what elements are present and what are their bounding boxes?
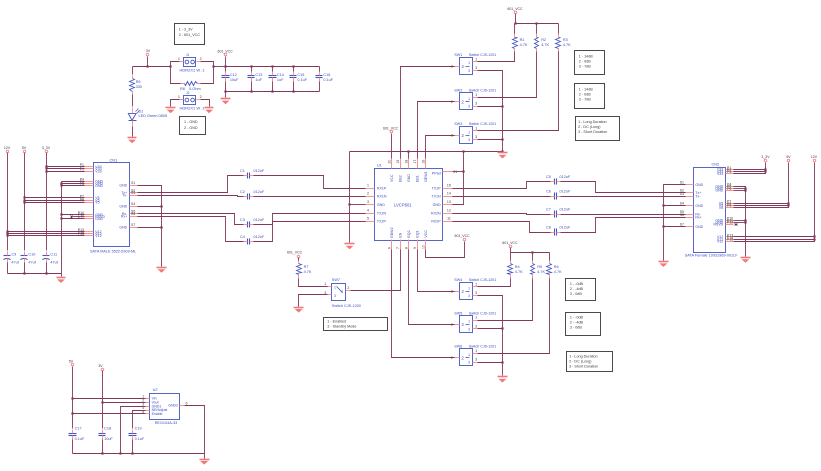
svg-text:R8: R8 [180,87,185,91]
svg-text:330: 330 [136,85,142,89]
pin P1 CN1 [80,163,102,169]
svg-text:601_VCC: 601_VCC [287,250,303,254]
pin P13 CN2 [717,233,734,239]
wire 5V CN2 [734,163,789,208]
svg-text:C14: C14 [277,73,284,77]
svg-text:P3: P3 [727,170,731,174]
power 3_3V [761,155,770,162]
pin P10 CN1 [78,211,104,217]
pin P7 CN1 [80,194,100,200]
junction [60,213,62,215]
capacitor C11 [42,252,58,265]
svg-text:C5: C5 [546,175,551,179]
wire C8 to CN2 S6 [561,218,686,233]
wire [734,239,815,241]
svg-text:1 - GND: 1 - GND [184,120,198,124]
svg-text:RX2P: RX2P [431,219,441,223]
connector CN2 [685,161,739,257]
pin P6 CN2 [715,187,733,193]
wire pin14 to C6 [453,196,551,198]
wire [478,279,511,287]
svg-text:1: 1 [178,95,180,99]
wire gnd net horizontal [350,151,503,153]
svg-text:2: 2 [367,191,369,195]
svg-text:Switch CJS-1201: Switch CJS-1201 [469,311,497,315]
svg-text:601_VCC: 601_VCC [218,49,234,53]
svg-text:4.7K: 4.7K [520,43,528,47]
svg-text:1 - Long Duration: 1 - Long Duration [569,354,598,358]
junction [501,361,503,363]
svg-text:3V: 3V [146,49,151,53]
junction [23,196,25,198]
junction [119,452,121,454]
svg-text:2: 2 [347,286,349,290]
junction [23,272,25,274]
power 5V [786,155,791,162]
svg-text:3_3V: 3_3V [761,155,770,159]
svg-text:0-Ohm: 0-Ohm [189,87,201,91]
ground [345,244,355,250]
wire [61,274,63,277]
wire pin10 VCC [426,242,465,258]
svg-text:11: 11 [447,216,451,220]
svg-text:RX2N: RX2N [431,211,441,215]
svg-text:GND: GND [119,225,127,229]
wire pin6 to SW6 [392,250,456,358]
svg-text:R3: R3 [563,38,568,42]
svg-text:VCC: VCC [390,174,394,182]
svg-text:9: 9 [413,247,417,249]
wire 5V rail [24,153,26,251]
svg-text:CN2: CN2 [712,161,720,166]
junction [787,202,789,204]
wire [132,440,134,454]
no-connect X P12 CN2 [735,224,738,226]
legend box [566,279,596,301]
svg-text:14: 14 [447,191,451,195]
svg-text:OEW1: OEW1 [424,171,428,182]
svg-text:GND2: GND2 [168,404,178,408]
svg-text:J1: J1 [186,53,190,57]
legend box [576,117,620,141]
junction [501,105,503,107]
svg-text:4: 4 [367,208,369,212]
ground [498,377,508,383]
wire [225,67,227,72]
wire [293,82,295,92]
junction [160,226,162,228]
ground [659,262,669,268]
wire [7,263,9,274]
wire [478,52,559,131]
ground [157,268,167,273]
wire C7 to CN2 S5 [561,214,686,216]
svg-text:S6: S6 [131,212,135,216]
svg-text:Tx-: Tx- [122,193,128,197]
junction [101,401,103,403]
svg-text:2: 2 [451,290,453,294]
wire [478,52,515,62]
junction [45,165,47,167]
wire [558,24,560,34]
junction [6,230,8,232]
wire pin9 to SW4 [418,250,456,292]
svg-text:12V: 12V [811,155,818,159]
wire [664,226,686,228]
svg-text:P6: P6 [727,187,731,191]
svg-text:.012uF: .012uF [559,175,572,179]
junction [146,65,148,67]
svg-text:Tx-: Tx- [695,194,701,198]
ground [294,308,304,313]
pin P4 CN2 [715,183,733,189]
svg-text:CN1: CN1 [110,157,118,162]
svg-text:GND: GND [695,183,703,187]
junction [662,204,664,206]
junction [101,452,103,454]
wire 12V rail [7,153,9,251]
resistor R4 [508,261,524,279]
svg-text:EQ1: EQ1 [416,230,420,237]
junction [462,170,464,172]
wire [201,100,210,107]
svg-text:R4: R4 [515,265,520,269]
svg-text:3: 3 [468,138,470,142]
svg-text:0.1uF: 0.1uF [323,78,333,82]
resistor R8 [180,82,201,92]
svg-text:1: 1 [475,283,477,287]
junction [744,187,746,189]
wire [478,328,503,330]
switch SW6 [451,345,496,366]
capacitor C10 [20,252,36,265]
wire [319,67,321,72]
svg-text:18: 18 [405,160,409,164]
svg-text:HDR2X1 W .1: HDR2X1 W .1 [180,67,206,72]
power 601_VCC [507,7,523,14]
svg-text:S7: S7 [680,223,684,227]
svg-text:4.7K: 4.7K [537,270,545,274]
svg-text:3V: 3V [98,364,103,368]
junction [744,189,746,191]
svg-text:6: 6 [186,402,188,406]
svg-text:20: 20 [388,160,392,164]
junction [514,22,516,24]
svg-text:3: 3 [468,327,470,331]
wire C3 to U1 pin4 [254,214,366,225]
junction [348,203,350,205]
capacitor C16 [316,72,334,83]
wire [298,258,300,261]
pin P6 CN1 [80,182,104,188]
svg-text:EB2: EB2 [398,175,402,182]
junction [764,168,766,170]
pin S2 CN2 [680,189,702,195]
pin P11 CN2 [715,219,733,225]
wire [510,253,512,261]
wire [319,82,321,92]
svg-text:Enable: Enable [152,412,163,416]
capacitor C4 [240,235,265,245]
wire pin7 to SW7 [351,250,401,291]
svg-text:1uF: 1uF [277,78,284,82]
svg-text:P9: P9 [727,204,731,208]
svg-text:10: 10 [422,245,426,249]
capacitor C17 [69,426,85,440]
wire [549,253,551,261]
svg-text:1: 1 [468,320,470,324]
svg-text:Switch CJS-1200: Switch CJS-1200 [332,304,361,308]
connector CN1 [90,157,136,253]
svg-text:.012uF: .012uF [253,169,266,173]
wire [734,169,766,171]
junction [813,238,815,240]
wire S3 to C2 [138,196,244,197]
wire pin15 to C5 [453,182,551,189]
wire 3_3V CN2 [734,163,766,174]
capacitor C6 [546,190,571,200]
svg-text:EQ2: EQ2 [407,230,411,237]
power 5V [69,360,74,366]
capacitor C18 [99,426,114,440]
wire [62,214,85,216]
svg-text:C6: C6 [546,190,551,194]
power 5V [22,146,27,153]
svg-text:C2: C2 [240,190,245,194]
legend box [566,313,601,336]
junction [45,272,47,274]
pin S4 CN2 [680,202,704,208]
wire S6 to C4 [138,217,244,242]
svg-text:1: 1 [334,285,336,289]
svg-text:2: 2 [200,95,202,99]
pin S3 CN2 [680,192,702,198]
wire [408,152,410,159]
wire [391,134,393,159]
wire [478,362,503,364]
wire [8,235,85,237]
wire [453,171,464,173]
wire [251,67,253,72]
pin P11 CN1 [78,213,105,219]
pin P2 CN1 [80,165,102,171]
wire [102,440,104,454]
wire 5V rail U2 [72,367,74,429]
junction [60,217,62,219]
svg-text:SW1: SW1 [454,53,462,57]
svg-text:601_VCC: 601_VCC [383,126,399,130]
svg-text:601_VCC: 601_VCC [455,234,471,238]
svg-text:47uf: 47uf [28,260,36,264]
legend box J1 options [175,24,205,45]
wire pin8 to SW5 [409,250,456,325]
svg-text:LED Green 0805: LED Green 0805 [139,114,168,118]
svg-text:REG104A-33: REG104A-33 [155,421,178,425]
wire [734,220,746,222]
svg-text:EB1: EB1 [416,175,420,182]
pin P13 CN1 [78,228,102,234]
svg-text:2 - GND: 2 - GND [184,126,198,130]
wire gnd net left vertical [349,152,351,243]
voltage regulator U2 REG104A-33 [142,388,187,425]
capacitor C5 [546,175,571,185]
svg-text:V12: V12 [717,239,723,243]
svg-text:3_3V: 3_3V [42,146,51,150]
svg-text:.012uF: .012uF [559,208,572,212]
svg-text:SATA Female 10031969-001LF: SATA Female 10031969-001LF [685,254,739,258]
svg-text:SW5: SW5 [454,311,462,315]
capacitor C7 [546,208,571,218]
wire [272,82,274,92]
svg-text:HDR2X1 W .1: HDR2X1 W .1 [180,105,206,110]
wire [664,205,686,207]
pin P5 CN2 [715,185,733,191]
pin S6 CN1 [121,212,138,218]
svg-text:C9: C9 [11,252,16,256]
ground [128,138,137,144]
svg-text:GND: GND [95,217,103,221]
junction [60,182,62,184]
pin S3 CN1 [122,191,137,197]
svg-text:TX1N: TX1N [431,194,441,198]
capacitor C8 [546,226,571,236]
wire Vin [73,398,146,400]
svg-text:1uF: 1uF [255,78,262,82]
svg-text:GND: GND [95,184,103,188]
svg-text:1 - Long Duration: 1 - Long Duration [578,120,607,124]
svg-text:0.1uF: 0.1uF [297,78,307,82]
wire [536,24,538,34]
junction [131,452,133,454]
svg-text:.012uF: .012uF [253,235,266,239]
svg-text:601_VCC: 601_VCC [502,241,518,245]
wire [72,440,74,454]
junction [160,205,162,207]
svg-text:1 - 14dB: 1 - 14dB [579,54,593,58]
svg-text:S1: S1 [131,181,135,185]
legend box J2 options [180,117,206,135]
wire [734,188,746,190]
junction [535,22,537,24]
svg-text:R7: R7 [304,265,309,269]
ground [221,99,231,105]
svg-text:5V: 5V [22,146,27,150]
svg-text:19: 19 [396,160,400,164]
svg-text:TX1P: TX1P [432,186,442,190]
svg-text:0.1uF: 0.1uF [135,437,145,441]
capacitor C12 [222,72,240,83]
no-connect X P11 CN1 [71,216,85,219]
switch SW5 [451,311,496,332]
svg-text:Switch CJS-1201: Switch CJS-1201 [469,89,497,93]
svg-text:3 - Short Duration: 3 - Short Duration [578,130,607,134]
junction [292,65,294,67]
svg-text:5: 5 [367,216,369,220]
wire [214,66,226,68]
junction [6,232,8,234]
pin S5 CN2 [680,210,702,216]
wire [62,183,85,185]
svg-text:3 - Short Duration: 3 - Short Duration [569,364,598,368]
svg-text:2: 2 [451,100,453,104]
svg-text:SW4: SW4 [454,278,462,282]
wire [25,202,85,204]
junction [45,170,47,172]
svg-text:.012uF: .012uF [559,190,572,194]
junction [662,225,664,227]
wire [515,14,517,24]
wire R pulldown rail [511,252,550,254]
wire [478,52,537,98]
pin S4 CN1 [119,202,137,208]
power 3_3V [42,146,51,153]
junction [501,138,503,140]
junction [501,327,503,329]
junction [45,167,47,169]
wire [532,253,534,261]
capacitor C1 [240,169,265,179]
svg-text:V12: V12 [95,234,101,238]
svg-text:GND: GND [119,183,127,187]
svg-text:3 - 0dB: 3 - 0dB [570,326,582,330]
header J1 [178,53,206,72]
wire 3V rail U2 [102,371,104,429]
junction [250,90,252,92]
pin P3 CN2 [717,170,734,176]
svg-text:16: 16 [422,160,426,164]
wire U2 gnd rail [73,453,205,455]
wire [62,218,85,220]
svg-text:4.7K: 4.7K [541,43,549,47]
wire VCC cap rail top [226,66,320,68]
wire [132,67,134,75]
svg-text:2 - 0dB: 2 - 0dB [579,59,591,63]
wire 3_3V rail [46,153,48,251]
pin P9 CN2 [719,204,734,210]
svg-text:1 - -0dB: 1 - -0dB [570,282,584,286]
wire [25,200,85,202]
wire [133,66,171,68]
svg-text:3: 3 [334,294,336,298]
svg-text:2 - DC (Long): 2 - DC (Long) [578,125,600,129]
power 3V [146,49,151,56]
junction [501,150,503,152]
svg-text:1: 1 [468,286,470,290]
wire [293,67,295,72]
ground [498,153,508,159]
svg-text:C17: C17 [75,426,82,430]
resistor R1 [513,34,528,52]
wire CN2 S-gnd [664,185,686,261]
pin S1 CN1 [119,181,137,187]
junction [250,65,252,67]
svg-text:C15: C15 [297,73,304,77]
wire [272,67,274,72]
svg-text:1 - Enabled: 1 - Enabled [327,319,346,323]
junction [531,251,533,253]
LED D1 [128,108,167,127]
svg-text:1: 1 [367,183,369,187]
junction [169,65,171,67]
wire C4 to U1 pin5 [254,222,366,242]
svg-text:P15: P15 [727,238,733,242]
wire gnd to pins 21/13 [453,152,464,205]
svg-text:Rx+: Rx+ [121,214,127,218]
svg-text:GND: GND [695,204,703,208]
svg-text:C8: C8 [546,226,551,230]
wire C2 to U1 pin2 [254,196,366,198]
junction [71,412,73,414]
